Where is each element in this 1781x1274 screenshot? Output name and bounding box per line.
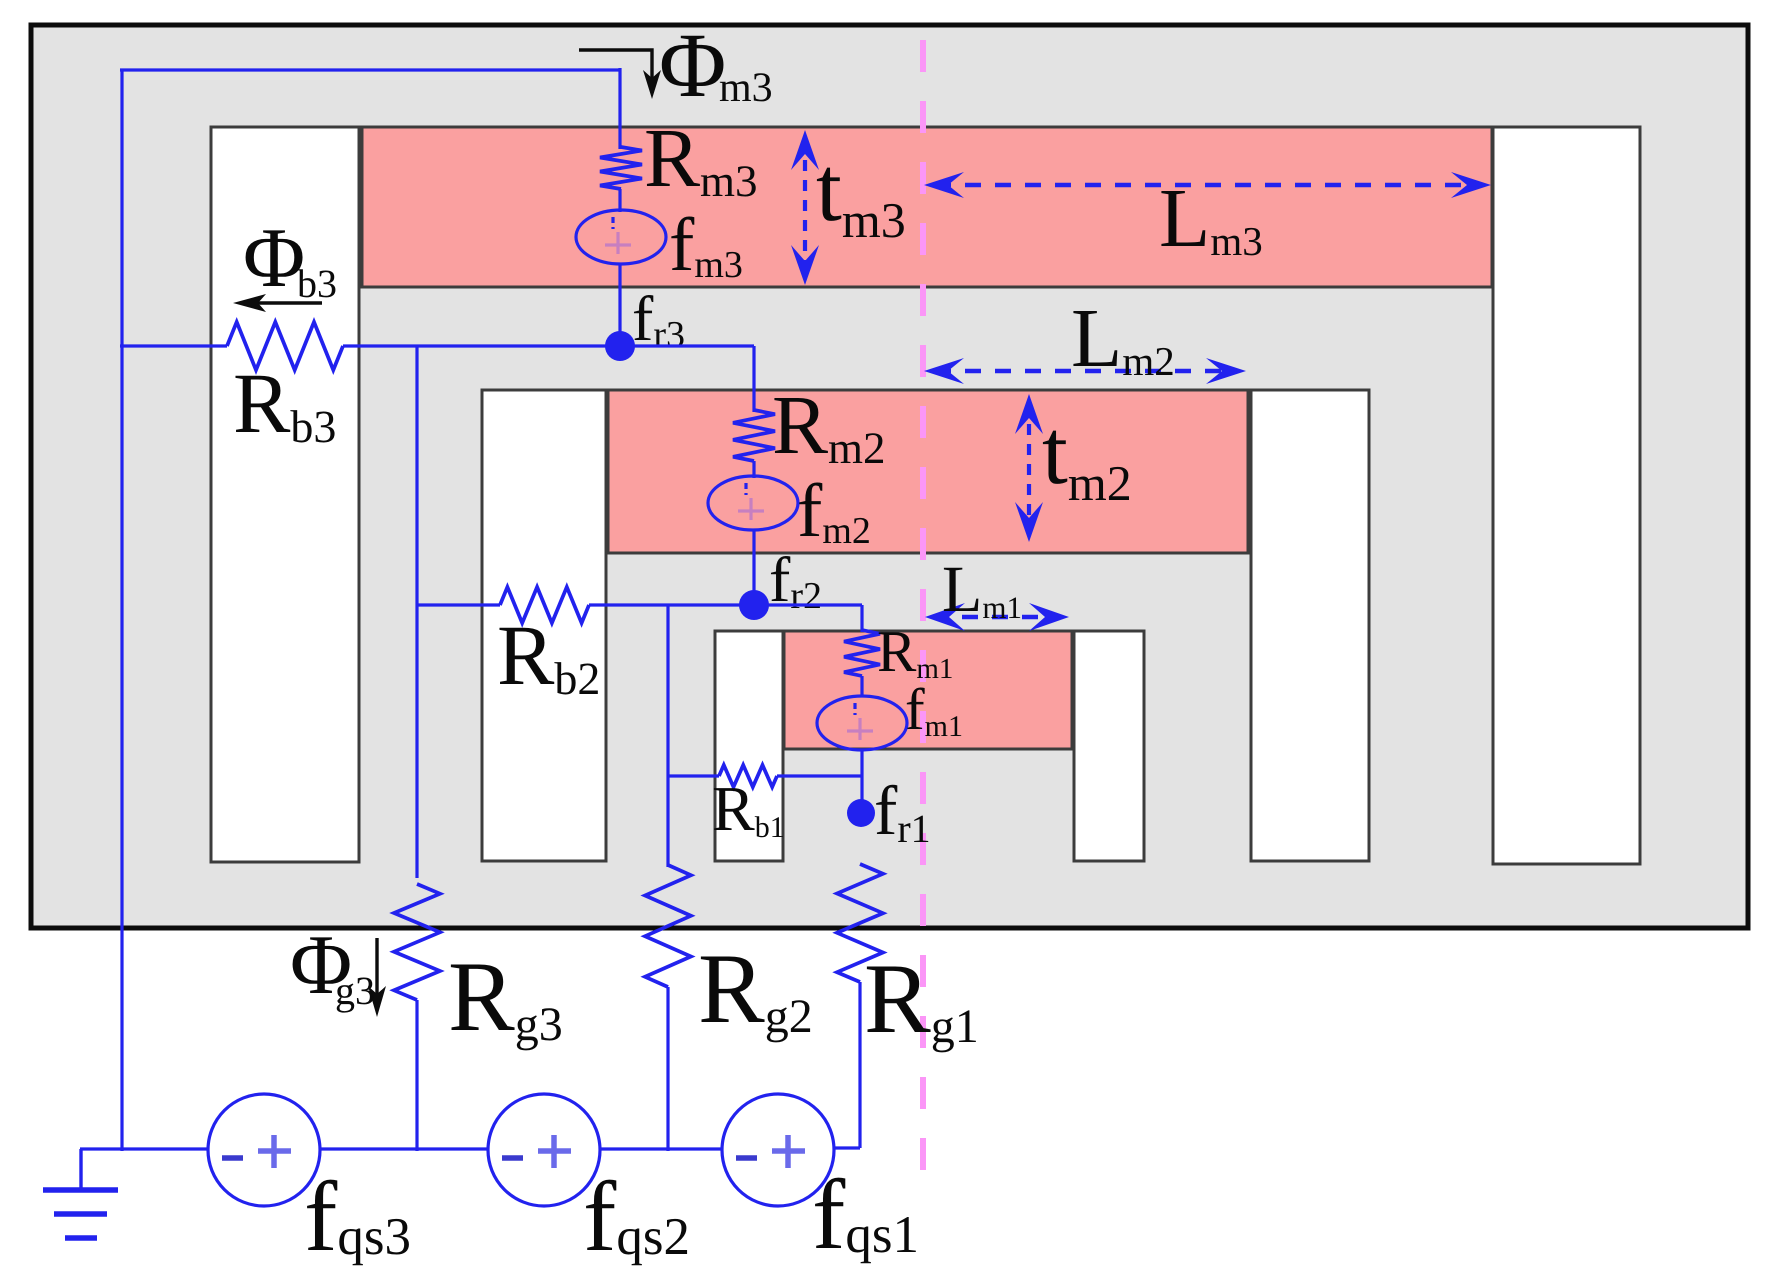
resistor Rm1 xyxy=(844,630,880,676)
flux arrow Phi_g3 xyxy=(375,938,378,995)
wire Rg2 to bottom bus xyxy=(666,987,669,1151)
node fr3 xyxy=(605,331,635,361)
wire Rb3 row left xyxy=(120,344,227,347)
wire Rm1 to fm1 xyxy=(860,676,863,697)
source fqs3 xyxy=(208,1094,320,1206)
wire Rb2 to fr2 and onwards xyxy=(589,603,862,606)
flux arrow Phi_m3 xyxy=(579,50,652,78)
source fqs1 xyxy=(722,1094,834,1206)
svg-text:Φ: Φ xyxy=(243,211,305,305)
wire fm1 to fr1 xyxy=(860,750,863,814)
window slot B xyxy=(482,390,606,861)
wire fm2 to fr2 xyxy=(752,530,755,607)
wire fqs2 to fqs1 xyxy=(600,1147,722,1150)
ground symbol xyxy=(79,1149,82,1188)
resistor Rg3 xyxy=(394,884,440,1000)
resistor Rm3 xyxy=(600,147,642,189)
source fm1 (mmf ellipse) xyxy=(817,696,907,750)
dimension Lm3 arrow xyxy=(935,183,1480,188)
window slot A (leftmost) xyxy=(211,127,359,862)
node fr2 xyxy=(739,590,769,620)
dimension Lm1 arrow xyxy=(932,615,1062,620)
dimension Lm2 arrow xyxy=(935,369,1235,374)
source fm2 (mmf ellipse) xyxy=(708,476,798,530)
dimension tm3 arrow xyxy=(803,140,807,273)
ground wire xyxy=(80,1147,209,1150)
symmetry axis (magenta dashed) xyxy=(920,40,926,1192)
source fm3 (mmf ellipse) xyxy=(576,210,666,264)
wire fqs3 to fqs2 xyxy=(320,1147,488,1150)
magnet m3 (top, pink) xyxy=(362,127,1492,287)
svg-text:Φ: Φ xyxy=(659,14,726,116)
wire Rm2 to fm2 xyxy=(752,461,755,478)
wire down to Rm1 xyxy=(860,605,863,632)
wire Rb2 row left xyxy=(417,603,500,606)
wire Rm3 to fm3 xyxy=(618,189,621,212)
resistor Rm2 xyxy=(733,410,775,461)
wire vertical Rb3 row down to Rg3 xyxy=(415,346,418,878)
source fqs2 xyxy=(488,1094,600,1206)
core plate (gray stator core) xyxy=(31,25,1748,928)
magnet m2 (middle, pink) xyxy=(608,390,1248,553)
resistor Rg2 xyxy=(645,865,691,987)
svg-text:m3: m3 xyxy=(719,65,773,111)
resistor Rg1 xyxy=(837,864,883,982)
magnet m1 (small, pink) xyxy=(784,631,1072,749)
wire top horizontal xyxy=(120,68,620,71)
node fr1 xyxy=(847,799,875,827)
resistor Rb3 xyxy=(227,322,343,370)
wire fm3 to fr3 xyxy=(618,263,621,348)
dimension tm2 arrow xyxy=(1027,404,1031,532)
window slot F (rightmost) xyxy=(1493,127,1640,864)
wire Rg1 to bottom corner xyxy=(858,982,861,1148)
resistor Rb2 xyxy=(500,587,589,623)
wire Rg3 to bottom bus xyxy=(415,1000,418,1151)
svg-text:g3: g3 xyxy=(335,968,375,1013)
wire vertical fr2 row down to Rg2 xyxy=(666,605,669,867)
resistor Rb1 xyxy=(719,765,777,787)
window slot D xyxy=(1074,631,1144,861)
wire Rb1 to fm1 branch xyxy=(777,774,862,777)
flux arrow Phi_b3 xyxy=(255,301,322,304)
wire top of Rm3 xyxy=(618,68,621,149)
svg-text:b3: b3 xyxy=(297,261,337,306)
wire left vertical bus xyxy=(120,69,123,1151)
wire Rb3 to fr3 and onwards xyxy=(343,344,754,347)
window slot E xyxy=(1251,390,1369,861)
wire down to Rm2 xyxy=(752,346,755,412)
wire Rb1 row left xyxy=(668,774,719,777)
window slot C xyxy=(715,631,783,861)
